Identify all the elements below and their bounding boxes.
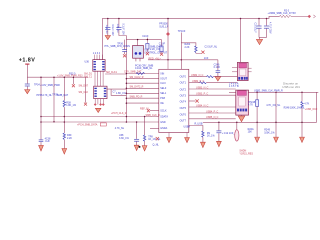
svg-text:SDATA: SDATA [160, 115, 168, 118]
wires U1 bottom stubs + grounds [153, 133, 188, 147]
ground (under C10) [25, 90, 30, 94]
svg-text:REF_NL: REF_NL [140, 108, 150, 111]
wire stub v2 to bus [52, 76, 58, 122]
svg-text:USB2_SMB_CLK_PWR_R: USB2_SMB_CLK_PWR_R [254, 90, 283, 93]
capacitor C38 leg [37, 77, 53, 145]
resistor R39 (lower) [63, 116, 72, 149]
svg-text:PD#: PD# [160, 97, 165, 100]
svg-text:GND: GND [160, 121, 166, 124]
capacitor C7 (mid, with no-connect) [105, 40, 131, 58]
svg-text:3.3K_1%: 3.3K_1% [119, 137, 130, 140]
capacitor C8 [254, 18, 262, 38]
ground (under U37) [95, 108, 101, 112]
svg-text:SMB_DAT: SMB_DAT [57, 94, 69, 97]
ground (C38 arrow) [39, 145, 44, 151]
svg-text:4.7K: 4.7K [304, 102, 309, 105]
capacitor C12 polarized [216, 122, 238, 142]
svg-text:SCLK: SCLK [160, 110, 167, 113]
wires U1 right pins to connector [189, 74, 238, 78]
wire main top rail [103, 16, 280, 59]
capacitor C5 [116, 18, 127, 36]
resistor R204 (test point branch) [178, 30, 218, 69]
jumper F1 [235, 122, 254, 156]
svg-text:C35 .1U: C35 .1U [116, 24, 119, 33]
svg-text:USB con 201: USB con 201 [282, 85, 300, 89]
svg-text:1K_1%_NL: 1K_1%_NL [148, 138, 161, 141]
ground (R_USB arrow) [201, 142, 206, 147]
svg-text:+USB2_SMB_CLK_R TP2: +USB2_SMB_CLK_R TP2 [268, 12, 297, 15]
svg-text:OE: OE [160, 102, 164, 105]
capacitor C9 [264, 18, 272, 38]
svg-text:100K_1%: 100K_1% [264, 132, 275, 135]
wire 1.8V rail [27, 76, 88, 78]
svg-text:CLKI: CLKI [160, 82, 166, 85]
svg-text:+1.8V: +1.8V [19, 58, 36, 64]
connector J1 lower body [236, 90, 249, 115]
wire mid horizontal [126, 39, 161, 41]
svg-text:SM_DAT2_R: SM_DAT2_R [130, 86, 144, 89]
svg-text:OUT5: OUT5 [180, 107, 187, 110]
resistor R2 on top rail [268, 10, 309, 18]
wire U37 right routing [107, 89, 127, 130]
svg-text:SM_C1: SM_C1 [84, 76, 93, 79]
ground (U1 right arrow) [185, 138, 190, 143]
resistor R38 pullup [57, 76, 77, 133]
svg-text:C36 .1U: C36 .1U [105, 25, 108, 34]
svg-text:TP1UF: TP1UF [178, 30, 186, 33]
svg-text:2.2K_1%: 2.2K_1% [150, 48, 161, 51]
svg-text:.1UF: .1UF [45, 140, 51, 143]
node junction top rail [240, 18, 242, 20]
ground (R39 arrow) [62, 149, 67, 155]
resistor R_USB (bottom of U1) [189, 123, 216, 143]
svg-text:4.7UF 25V: 4.7UF 25V [269, 22, 272, 34]
ground (under C246) [215, 77, 221, 82]
svg-text:+1.8V_SMB_PWR_R33: +1.8V_SMB_PWR_R33 [57, 75, 83, 78]
ground (right grid arrow 2) [274, 137, 279, 142]
wires U37 bottom stubs [94, 99, 105, 106]
svg-text:OUT2: OUT2 [180, 88, 187, 91]
pin labels U1 left inside [160, 72, 168, 129]
svg-text:C1UF: C1UF [142, 35, 149, 38]
svg-text:USB3_N_C: USB3_N_C [196, 86, 209, 89]
svg-text:USB2_N_C: USB2_N_C [191, 74, 204, 77]
svg-text:SM_CLK: SM_CLK [79, 91, 89, 94]
svg-text:R248 100K_1%_NL: R248 100K_1%_NL [284, 107, 306, 110]
svg-text:2.2K: 2.2K [67, 137, 72, 140]
svg-text:U36: U36 [85, 61, 90, 64]
IC U36 (upper left) [85, 52, 106, 71]
resistor labels right grid [248, 101, 318, 135]
svg-text:USB5_N_C: USB5_N_C [206, 116, 219, 119]
svg-text:USBR: USBR [184, 126, 191, 129]
ground (R8 arrow) [142, 146, 147, 151]
ground (top right) [256, 39, 262, 44]
svg-text:1UF: 1UF [204, 57, 209, 60]
crystal Y1 [133, 39, 168, 62]
svg-text:OUT4: OUT4 [180, 101, 187, 104]
svg-text:4.7K_NL: 4.7K_NL [43, 94, 53, 97]
svg-text:SM_CLK2_R: SM_CLK2_R [130, 76, 144, 79]
svg-text:+PCH_CLK_R: +PCH_CLK_R [111, 112, 127, 115]
svg-text:1K_1%: 1K_1% [207, 135, 216, 138]
wire right bus y=122 [203, 121, 317, 123]
wire to connector top [240, 19, 242, 63]
svg-text:SM_DAT: SM_DAT [79, 84, 89, 87]
svg-text:+PCH_SMB_DATA: +PCH_SMB_DATA [77, 124, 98, 127]
svg-text:GNDA: GNDA [160, 127, 167, 130]
capacitor C246 (right of AVDD) [214, 60, 221, 77]
svg-text:USB4_N_C: USB4_N_C [196, 104, 209, 107]
svg-text:USB3_P_C: USB3_P_C [196, 93, 208, 96]
resistor R8 (bottom mid) [139, 116, 162, 148]
svg-text:4.7K_1%_NL: 4.7K_1%_NL [266, 104, 281, 107]
svg-text:0.1UF_SMB_NL: 0.1UF_SMB_NL [135, 67, 153, 70]
svg-text:Y1R15_RES: Y1R15_RES [239, 152, 253, 155]
svg-text:1 3 5 7 B: 1 3 5 7 B [229, 85, 239, 88]
svg-text:OUT6: OUT6 [180, 113, 187, 116]
svg-text:SMB_PD_R: SMB_PD_R [130, 96, 143, 99]
IC U1 (main) [159, 69, 189, 132]
annotation gray text [282, 82, 300, 89]
wire right verticals [256, 92, 317, 137]
svg-text:1.8K_1%: 1.8K_1% [66, 104, 77, 107]
svg-text:0.1UF 10V: 0.1UF 10V [122, 23, 125, 35]
svg-text:OUT7: OUT7 [180, 120, 187, 123]
ground (right grid arrow 1) [255, 137, 260, 142]
capacitor C11 (bottom mid) [119, 121, 139, 145]
wire stub NC2 [84, 77, 87, 105]
wire U36 right [105, 71, 126, 74]
svg-text:1 2 3 4: 1 2 3 4 [93, 52, 101, 55]
ground (U1 left arrow) [167, 138, 172, 143]
svg-text:USB4_P_C: USB4_P_C [206, 110, 218, 113]
wire SMB bus line 1 [41, 116, 159, 118]
svg-text:2.2K: 2.2K [185, 46, 190, 49]
svg-text:OUT1: OUT1 [180, 82, 187, 85]
svg-text:SUS_LF: SUS_LF [159, 25, 169, 28]
wires U1 left pins [124, 71, 159, 75]
capacitor C4 (top left) [105, 18, 114, 36]
svg-text:+1.8V_SMB_PWR: +1.8V_SMB_PWR [40, 84, 60, 87]
svg-text:USB2_P_C: USB2_P_C [192, 80, 204, 83]
svg-text:HTL_SMB_ATN_CONN: HTL_SMB_ATN_CONN [105, 45, 131, 48]
pin labels U1 right inside [180, 76, 191, 129]
ground (C11 arrow) [134, 145, 139, 150]
svg-text:SEL0: SEL0 [160, 87, 167, 90]
ground (C12 arrow) [217, 141, 222, 146]
wire right power line y=92.3 [229, 90, 318, 93]
capacitor C10 (under power) [25, 77, 60, 89]
wire AVDD line above U1 [148, 57, 218, 69]
svg-text:CRY_SMB_DAT: CRY_SMB_DAT [124, 71, 142, 74]
svg-text:C3 0.1UF: C3 0.1UF [254, 23, 257, 34]
wire stub NC1 [72, 76, 75, 87]
node USB2_SMB_CLK port [308, 15, 316, 18]
svg-text:Q_NL: Q_NL [153, 144, 160, 147]
svg-text:XIN: XIN [160, 72, 164, 75]
svg-text:+USB_OC#: +USB_OC# [305, 108, 318, 111]
wire left vertical bus [125, 36, 127, 123]
svg-text:XOUT: XOUT [160, 78, 167, 81]
wires U36 to U37 [84, 71, 103, 86]
svg-text:4.7K: 4.7K [248, 104, 253, 107]
node PP3300 branch [159, 18, 170, 60]
svg-text:OUT3: OUT3 [180, 95, 187, 98]
connector J1 upper body [232, 62, 252, 80]
svg-text:SEL1: SEL1 [160, 92, 167, 95]
power symbol [25, 64, 29, 77]
svg-text:0.1UF 10V: 0.1UF 10V [111, 24, 114, 36]
svg-text:OUT0: OUT0 [180, 76, 187, 79]
ground (right grid arrow 3) [300, 137, 305, 142]
svg-text:C3 1UF_NL: C3 1UF_NL [205, 46, 218, 49]
IC U37 (lower left) [79, 84, 108, 98]
ground (connector arrow) [238, 115, 245, 122]
resistor R5 (mid vertical with NC) [142, 35, 149, 55]
svg-text:10K: 10K [248, 131, 253, 134]
wire cap bottoms join [259, 38, 267, 40]
svg-text:4.7K_NL: 4.7K_NL [115, 127, 125, 130]
wire SMB bus line 2 with PCH_SMB_DATA label [41, 121, 159, 126]
svg-text:1.8K_1%: 1.8K_1% [116, 92, 127, 95]
wire U1 pin stub bottom-left [150, 128, 159, 130]
ground (under C4) [105, 36, 110, 40]
svg-text:R_USB: R_USB [195, 123, 203, 126]
svg-text:SM_CLK1: SM_CLK1 [106, 71, 118, 74]
resistor R_b (line end) [150, 40, 166, 56]
svg-text:SMB_CLK_R: SMB_CLK_R [146, 114, 160, 117]
svg-text:0.1UF: 0.1UF [214, 66, 221, 69]
